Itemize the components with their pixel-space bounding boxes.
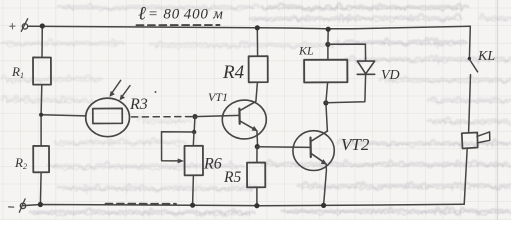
- svg-text:R6: R6: [203, 156, 222, 173]
- svg-text:R3: R3: [129, 96, 148, 113]
- svg-text:VT2: VT2: [341, 135, 370, 154]
- svg-text:ℓ= 80 400 м: ℓ= 80 400 м: [138, 4, 224, 25]
- svg-text:VT1: VT1: [208, 90, 228, 104]
- svg-text:KL: KL: [298, 44, 314, 58]
- svg-text:VD: VD: [381, 68, 400, 83]
- svg-text:KL: KL: [477, 49, 495, 64]
- svg-text:R4: R4: [222, 62, 245, 83]
- svg-text:R5: R5: [223, 169, 241, 186]
